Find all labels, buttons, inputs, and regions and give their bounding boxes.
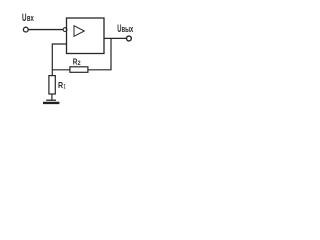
- svg-text:вх: вх: [27, 13, 34, 23]
- svg-text:вых: вых: [122, 24, 134, 34]
- svg-text:1: 1: [64, 84, 66, 91]
- svg-text:R: R: [58, 80, 63, 90]
- svg-text:U: U: [22, 12, 27, 24]
- svg-text:2: 2: [78, 61, 82, 67]
